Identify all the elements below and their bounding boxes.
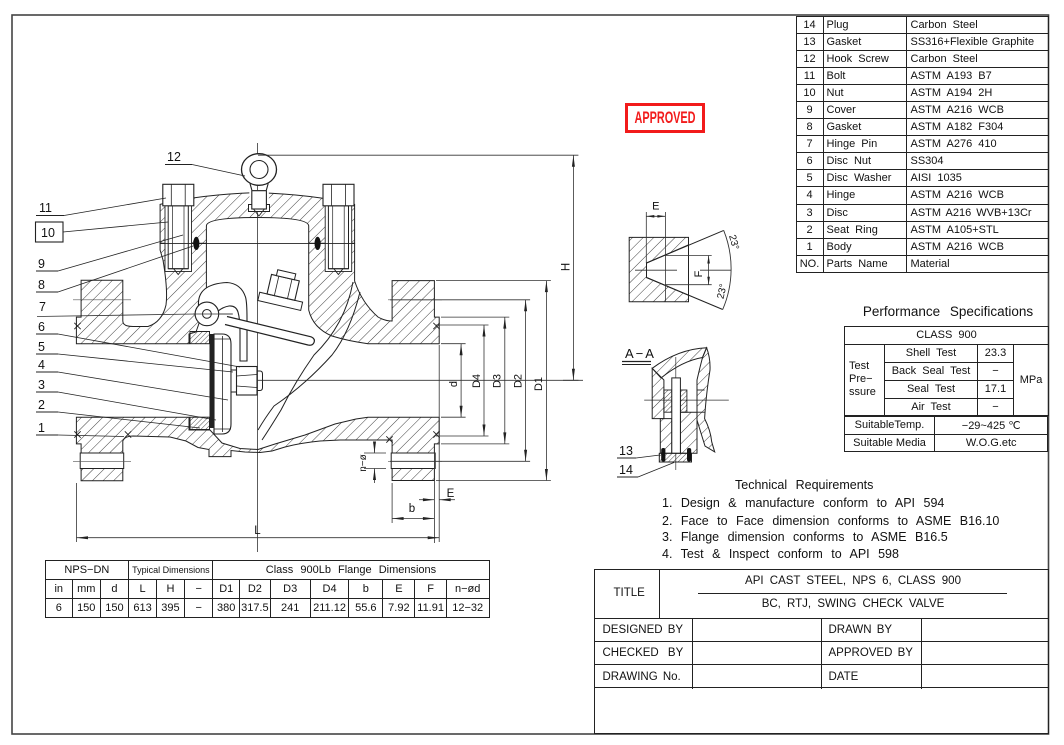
svg-text:23°: 23°: [726, 234, 741, 251]
svg-text:10: 10: [41, 226, 55, 240]
svg-text:11: 11: [39, 201, 52, 215]
svg-text:3: 3: [38, 378, 45, 392]
svg-text:13: 13: [619, 444, 633, 458]
svg-text:E: E: [447, 488, 455, 500]
svg-text:2: 2: [38, 398, 45, 412]
svg-text:D1: D1: [533, 377, 545, 391]
svg-text:14: 14: [619, 463, 633, 477]
svg-text:b: b: [409, 503, 415, 515]
svg-text:H: H: [561, 263, 573, 271]
svg-text:n−ø: n−ø: [358, 454, 369, 472]
svg-text:A−A: A−A: [625, 346, 656, 361]
svg-text:D4: D4: [471, 374, 483, 388]
svg-text:8: 8: [38, 278, 45, 292]
svg-text:D3: D3: [492, 374, 504, 388]
svg-text:4: 4: [38, 358, 45, 372]
svg-text:5: 5: [38, 340, 45, 354]
svg-text:F: F: [693, 270, 705, 277]
svg-text:9: 9: [38, 257, 45, 271]
svg-text:12: 12: [167, 150, 181, 164]
svg-text:D2: D2: [512, 374, 524, 388]
svg-text:6: 6: [38, 320, 45, 334]
svg-text:E: E: [652, 201, 659, 213]
svg-text:L: L: [254, 525, 261, 537]
svg-text:7: 7: [39, 300, 46, 314]
svg-text:d: d: [448, 381, 460, 387]
svg-text:1: 1: [38, 421, 45, 435]
